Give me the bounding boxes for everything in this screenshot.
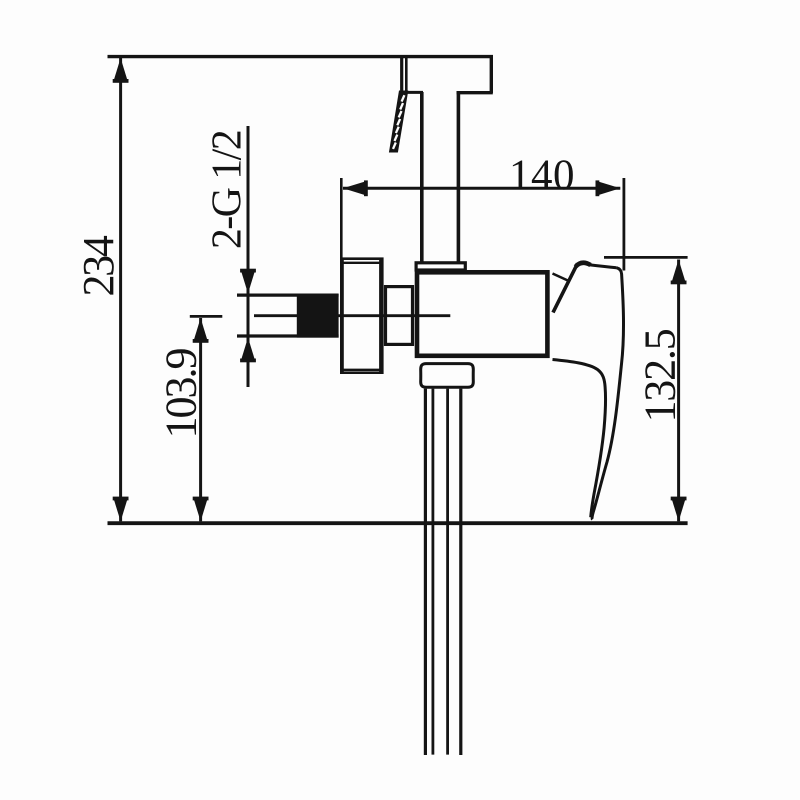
inlet pipe bottom edge [237,334,339,337]
svg-text:132.5: 132.5 [636,329,685,422]
hose line 4 [459,389,462,755]
mixer body [417,272,547,356]
sprayer head T-bar right edge [490,56,493,94]
wall flange inner right line [379,260,382,373]
dim 140 left extension [340,178,343,374]
dim 132.5 vertical line [677,260,680,522]
hex nut [386,287,413,345]
handle lever top curl [576,263,591,267]
arrow 234 top [113,58,129,83]
arrow G1/2 upper (down) [240,269,256,294]
arrow G1/2 lower (up) [240,338,256,363]
handle lever short diagonal [553,274,571,282]
wall flange inner bottom line [344,369,382,371]
sprayer head T-bar left double edge [400,56,403,93]
hose line 1 [424,389,427,755]
arrow 103.9 bottom [193,497,209,522]
dim 132.5 top tick [604,256,688,259]
wall flange outer [343,259,383,373]
handle top edge [589,265,617,268]
handle inner curve [553,360,606,518]
hose line 2 [431,389,434,755]
inlet pipe top edge [237,294,339,297]
dim 140 right extension [623,178,626,271]
outlet hose nut under body [421,364,474,388]
inlet pipe thread black block [297,294,339,338]
trigger hatched band [389,91,408,153]
sprayer stem left line [420,92,424,262]
centerline through pipe, flange, nut, body [254,314,450,317]
sprayer head T-bar bottom left shoulder [405,91,424,94]
arrow 140 right [596,180,621,196]
arrow 132.5 top [671,260,687,285]
svg-text:234: 234 [74,235,123,296]
sprayer stem right line [457,92,461,262]
dim 103.9 top tick [190,315,223,318]
arrow 132.5 bottom [671,497,687,522]
svg-text:103.9: 103.9 [157,349,206,439]
hose line 3 [446,389,449,755]
handle lever long diagonal [553,264,578,313]
sprayer head T-bar bottom right shoulder [457,91,493,94]
svg-text:2-G 1/2: 2-G 1/2 [205,131,251,249]
svg-text:140: 140 [509,152,575,199]
dim 140 line [343,187,620,190]
dim 234 vertical line [119,58,122,521]
baseline wall line [108,521,688,525]
arrow 140 left [343,180,368,196]
arrow 103.9 top [193,318,209,343]
handle outer right edge and tail [592,268,623,520]
dim 103.9 vertical line [199,318,202,521]
collar under stem [416,263,465,270]
top extension line [108,55,494,58]
arrow 234 bottom [113,497,129,522]
dim 2-G 1/2 extension vertical [247,126,250,387]
wall flange inner top line [344,262,382,264]
